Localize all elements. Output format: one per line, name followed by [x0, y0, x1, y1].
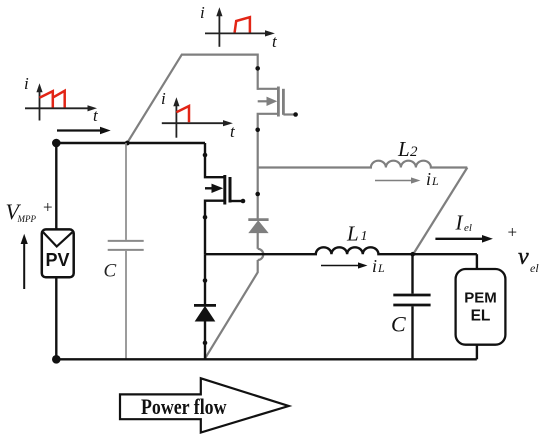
node: dot at gray branch on top rail: [125, 141, 130, 146]
diode D2 (gray, cathode bar on top): [248, 220, 268, 233]
svg-text:C: C: [104, 260, 117, 281]
svg-text:Power flow: Power flow: [141, 394, 227, 419]
svg-text:2: 2: [410, 144, 418, 160]
arrow: Iel output current arrow: [435, 235, 493, 243]
svg-text:I: I: [455, 210, 464, 234]
node: Q2 source dot: [255, 128, 260, 133]
waveform inset: Q1 current (single ramp pulse): [161, 89, 236, 141]
wire: hop over L1 wire (semicircle bulging right): [258, 249, 264, 260]
axis i (top inset): [218, 15, 220, 47]
wire: left rail top (PV to top rail): [55, 143, 57, 229]
axis t (middle inset): [162, 122, 225, 124]
svg-text:i: i: [372, 256, 377, 276]
axis i (left inset): [39, 91, 41, 121]
svg-text:i: i: [426, 169, 431, 189]
svg-text:C: C: [391, 312, 406, 337]
wire: gray diagonal from L2 output down to output node: [413, 168, 467, 255]
node: big dot top-left: [52, 139, 61, 148]
wire: bottom rail: [56, 358, 477, 360]
transistor Q2 (gray MOSFET, phase 2): [258, 87, 295, 168]
waveform inset: PV input current (two sawtooth): [24, 74, 99, 125]
capacitor C (input, gray): [108, 143, 144, 359]
arrow: iL current arrow under L1: [321, 262, 368, 268]
wire: gray diagonal from top rail junction up to phase-2 top: [128, 55, 258, 142]
arrow: input current direction along top rail: [57, 127, 111, 135]
svg-text:PV: PV: [45, 250, 69, 270]
svg-text:i: i: [200, 3, 205, 22]
svg-text:EL: EL: [471, 308, 491, 325]
node: dot above D1: [203, 278, 208, 283]
svg-text:el: el: [530, 261, 539, 275]
node: Q2 drain dot: [255, 66, 260, 71]
wire: switch node down to diode D1: [204, 254, 206, 305]
wire: top rail: [56, 142, 205, 144]
wire: PEM EL bottom to bottom rail: [476, 345, 478, 360]
curve: ramp pulse (middle inset): [176, 106, 189, 122]
node: output node dot: [410, 252, 415, 257]
arrow: voltage arrow left of PV (pointing up): [21, 234, 28, 289]
svg-text:L: L: [346, 222, 359, 246]
wire: below D1 to bottom rail: [204, 321, 206, 359]
svg-text:L: L: [397, 137, 410, 161]
Power flow arrow: [120, 378, 289, 432]
svg-text:L: L: [377, 261, 385, 275]
svg-text:L: L: [431, 174, 439, 188]
inductor L2 (gray) with leads: [258, 161, 468, 168]
axis i (middle inset): [175, 105, 177, 138]
svg-text:PEM: PEM: [464, 290, 497, 307]
wire: gray below hop then diagonal to bottom rail: [205, 260, 258, 359]
arrow: iL current arrow under L2 (gray): [375, 177, 421, 183]
svg-text:i: i: [161, 89, 166, 108]
svg-text:+: +: [508, 223, 518, 242]
diode D1 (black, cathode bar on top): [194, 305, 216, 321]
waveform inset: Q2 current (trapezoid pulse): [200, 3, 278, 51]
axis t (top inset): [205, 32, 267, 34]
curve: sawtooth ramps (left inset): [40, 91, 65, 108]
node: dot on gray vertical: [255, 192, 260, 197]
transistor Q1 (black MOSFET, phase 1): [205, 143, 242, 254]
PEM EL block: [456, 269, 506, 345]
svg-text:v: v: [518, 244, 529, 270]
node: Q2 gate terminal dot: [293, 112, 298, 117]
wire: gray below diode to hop: [257, 233, 259, 249]
svg-text:MPP: MPP: [17, 214, 37, 224]
node: Q1 source dot: [203, 215, 208, 220]
wire: output node to PEM EL top: [476, 254, 478, 269]
node: Q1 gate terminal dot: [241, 199, 246, 204]
svg-text:el: el: [464, 222, 472, 234]
capacitor C (output, black): [393, 254, 430, 359]
svg-text:i: i: [24, 74, 29, 93]
node: dot below D1: [203, 341, 208, 346]
node: big dot bottom-left: [52, 355, 61, 364]
svg-text:1: 1: [361, 229, 368, 244]
node: Q1 drain dot: [203, 153, 208, 158]
axis t (left inset): [25, 107, 89, 109]
wire: left rail bottom (PV to bottom rail): [55, 277, 57, 359]
curve: trapezoid pulse (top inset): [235, 17, 250, 32]
wire: gray vertical from L2 branch to diode D2: [257, 168, 259, 220]
inductor L1 (black) with leads: [205, 247, 477, 254]
svg-text:+: +: [43, 197, 53, 216]
PV source box: [42, 229, 74, 277]
